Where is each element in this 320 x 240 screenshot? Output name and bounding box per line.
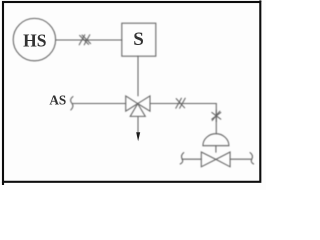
svg-text:HS: HS [23, 30, 46, 50]
vent wire below valve [137, 116, 139, 132]
solenoid box S [122, 23, 156, 56]
valve stem [215, 146, 217, 153]
pipe left of control valve [182, 158, 201, 160]
wire S to 3-way valve [137, 56, 139, 96]
pneumatic signal mark on vertical actuator wire [212, 110, 221, 121]
border frame (decorative) [3, 0, 260, 185]
wire AS to 3-way valve [73, 103, 126, 105]
diaphragm actuator dome [203, 134, 229, 146]
pipe break mark left [180, 153, 184, 164]
svg-text:S: S [133, 29, 144, 50]
svg-text:AS: AS [49, 92, 66, 107]
pneumatic signal mark on HS-S wire [79, 35, 90, 45]
pipe right of control valve [230, 158, 251, 160]
pneumatic signal mark on horizontal output wire [176, 98, 185, 108]
wire 3-way valve to corner node [150, 103, 216, 105]
vent arrow to atmosphere [136, 132, 140, 141]
pipe break mark right [250, 153, 254, 164]
air supply AS break mark [71, 97, 73, 111]
wire HS to S [56, 39, 122, 41]
control valve body [201, 152, 230, 167]
3-way solenoid valve body [126, 96, 150, 117]
wire corner down to actuator [215, 104, 217, 134]
hand switch HS bubble [13, 18, 55, 60]
